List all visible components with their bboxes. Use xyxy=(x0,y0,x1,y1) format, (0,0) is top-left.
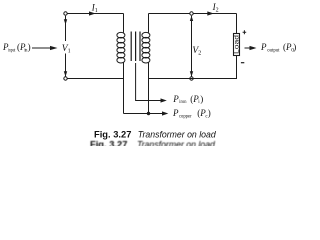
svg-text:Fig. 3.27: Fig. 3.27 xyxy=(94,130,131,140)
ghost of next caption line (page scan artifact) xyxy=(90,139,216,149)
arrow P_output xyxy=(245,46,257,50)
label + polarity xyxy=(243,30,247,34)
label I2 xyxy=(212,2,219,13)
wire core drop to P_iron arrow xyxy=(136,63,167,103)
svg-text:): ) xyxy=(200,94,203,104)
svg-text:iron: iron xyxy=(179,99,186,105)
svg-text:Fig. 3.27: Fig. 3.27 xyxy=(90,140,127,146)
label V1 xyxy=(62,44,71,55)
svg-text:P: P xyxy=(260,42,267,52)
label P_output (P_0) xyxy=(260,42,296,54)
wire top-right rail from secondary to load xyxy=(149,13,237,15)
svg-text:Transformer on load: Transformer on load xyxy=(137,139,216,146)
svg-text:copper: copper xyxy=(179,114,192,120)
wire secondary bottom to bottom-right rail xyxy=(148,63,150,79)
svg-text:Transformer on load: Transformer on load xyxy=(138,130,217,140)
voltage arrow V1 (line with two down arrowheads) xyxy=(64,16,67,77)
label V2 xyxy=(192,46,201,57)
node: V2 bottom terminal xyxy=(190,77,193,80)
transformer core (laminated, 3 lines) xyxy=(131,32,140,62)
svg-text:P: P xyxy=(172,94,179,104)
wire bottom-right rail xyxy=(149,78,238,80)
junction dot on P_copper line xyxy=(147,112,150,115)
wire primary bottom drop to P_copper corner xyxy=(123,63,125,114)
label Load (rotated) xyxy=(234,35,240,54)
load box xyxy=(234,34,240,56)
svg-text:output: output xyxy=(267,48,280,54)
svg-text:): ) xyxy=(293,42,296,52)
current arrow I1 xyxy=(89,11,96,15)
transformer secondary winding L2 xyxy=(142,32,150,63)
wire top-left from V1 top terminal to primary xyxy=(67,13,123,15)
svg-text:input: input xyxy=(8,48,16,54)
node: V1 top terminal xyxy=(64,12,67,15)
arrow P_input xyxy=(32,46,58,50)
node: V1 bottom terminal xyxy=(64,77,67,80)
current arrow I2 xyxy=(207,11,214,15)
label P_input (P_in) xyxy=(2,42,31,54)
wire load vertical bottom xyxy=(236,56,238,79)
wire secondary branch down to junction dot xyxy=(148,79,150,113)
svg-text:Load: Load xyxy=(234,35,240,54)
caption Fig. 3.27 Transformer on load xyxy=(94,130,217,140)
wire primary vertical drop (top corner to coil) xyxy=(123,14,125,33)
svg-text:): ) xyxy=(208,108,211,118)
wire secondary top drop xyxy=(148,14,150,33)
label P_copper (P_c) xyxy=(172,108,211,120)
voltage arrow V2 (line with outward arrowheads) xyxy=(190,16,193,77)
label P_iron (P_i) xyxy=(172,94,203,105)
svg-text:P: P xyxy=(172,108,179,118)
wire P_copper horizontal with arrow xyxy=(124,111,169,115)
svg-text:): ) xyxy=(28,42,31,52)
wire bottom-left from V1 bottom terminal to primary bottom xyxy=(67,78,123,80)
wire load vertical top xyxy=(236,14,238,34)
label - polarity xyxy=(241,62,244,64)
label I1 xyxy=(91,3,98,14)
transformer primary winding L1 xyxy=(117,32,125,63)
node: V2 top terminal xyxy=(190,12,193,15)
